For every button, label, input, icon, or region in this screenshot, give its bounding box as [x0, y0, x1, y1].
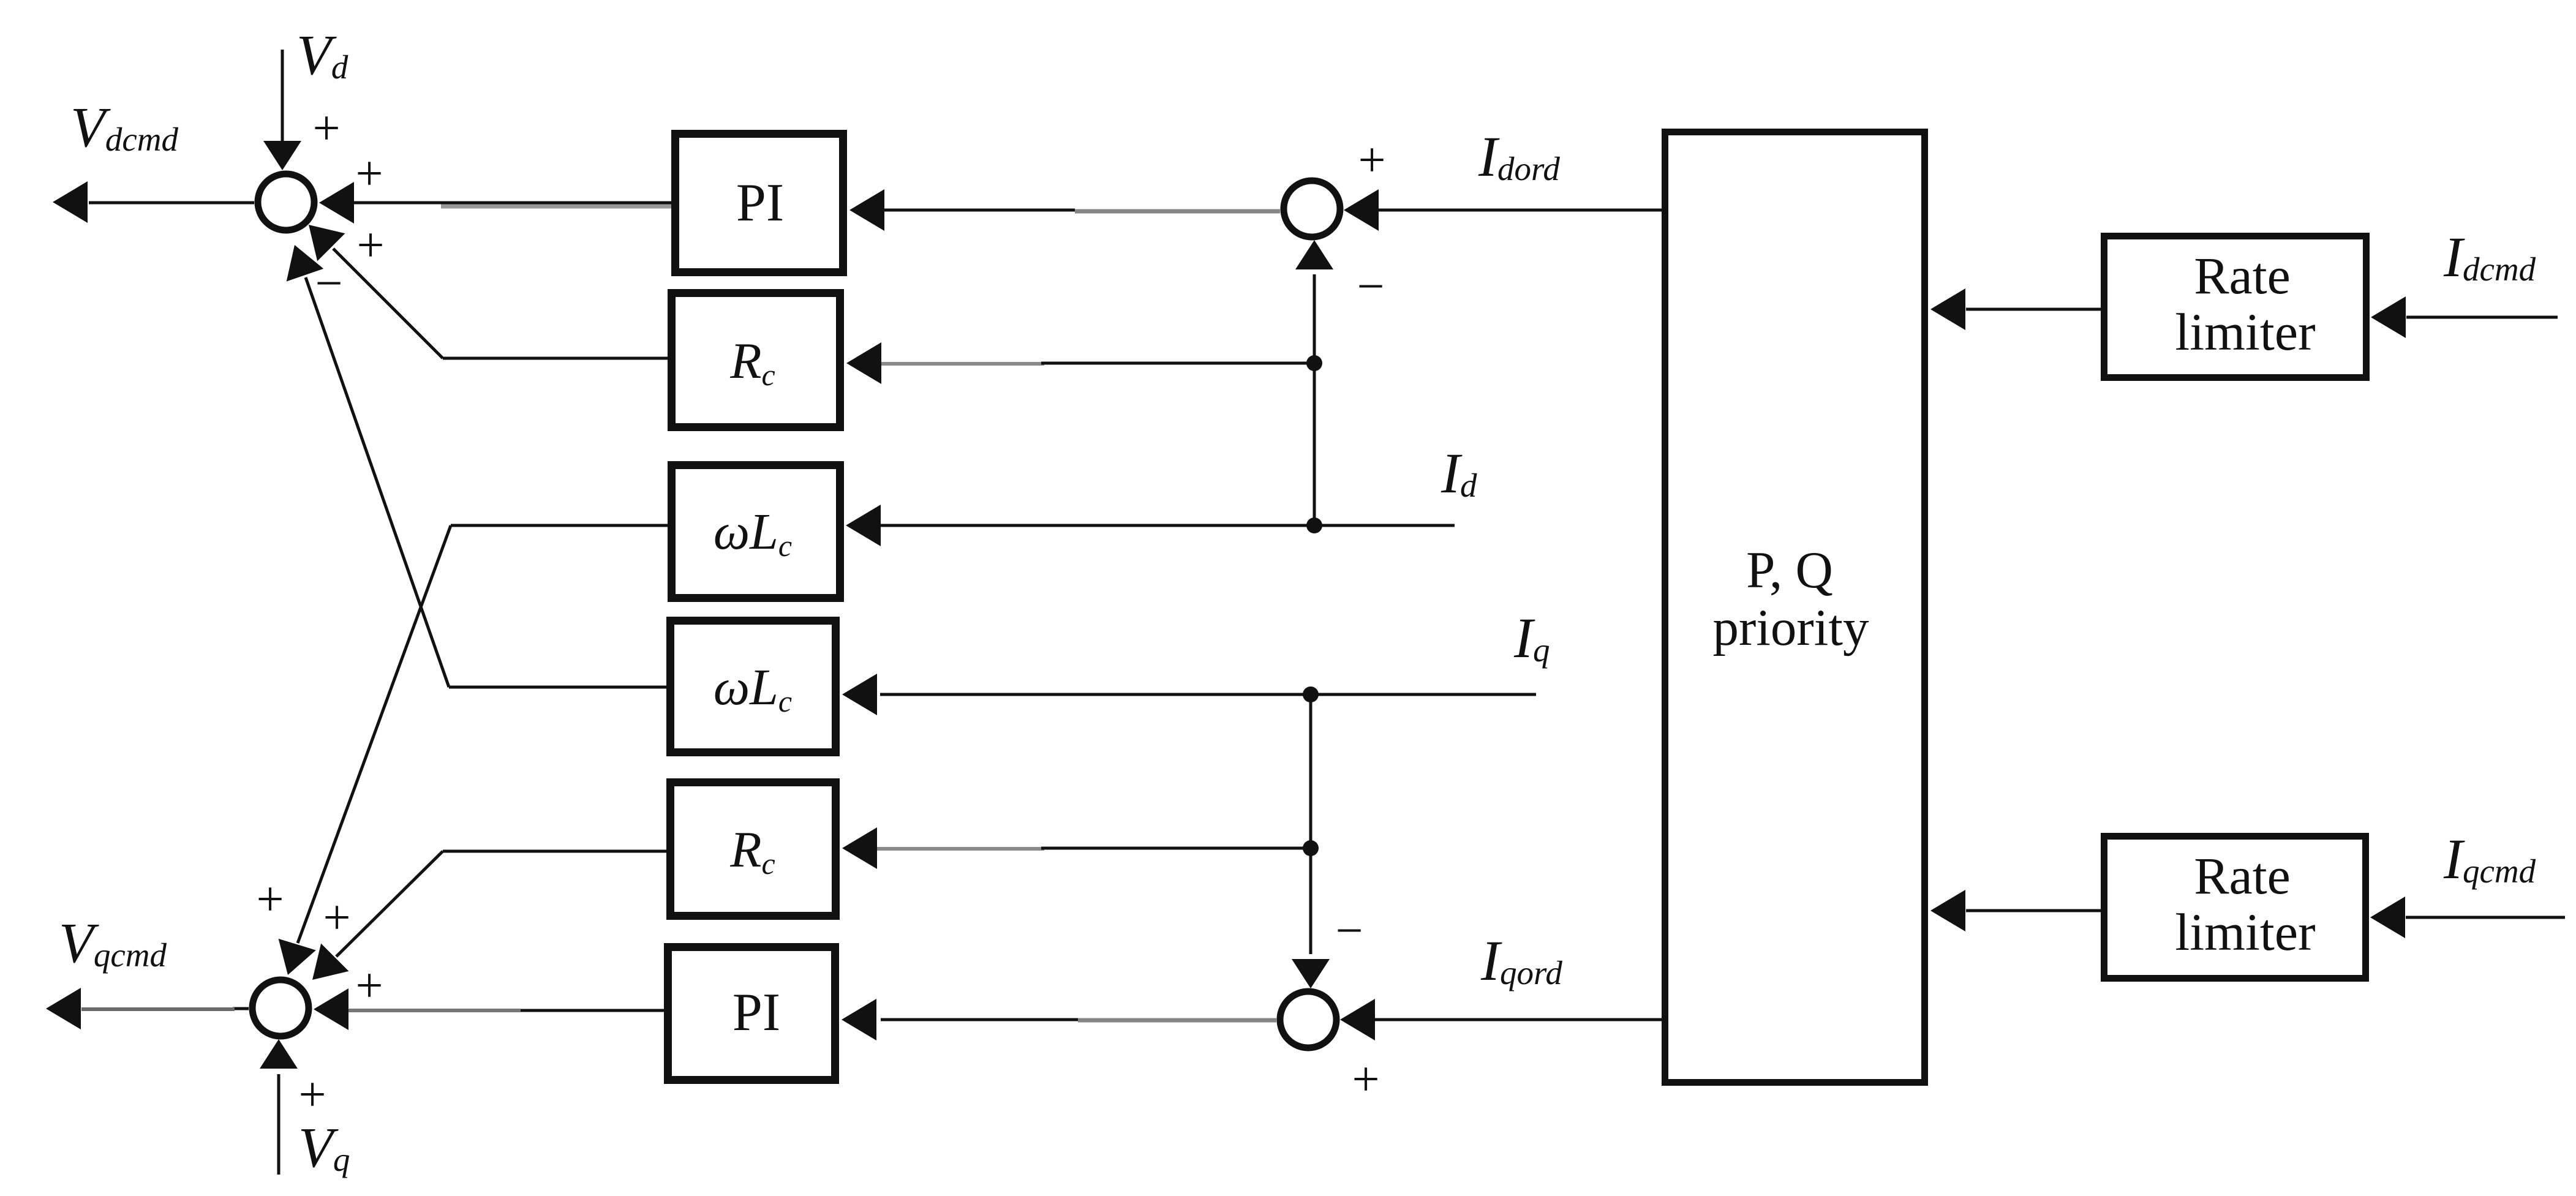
svg-text:PI: PI — [736, 173, 784, 233]
svg-text:+: + — [1358, 134, 1385, 187]
svg-text:PI: PI — [733, 983, 780, 1042]
svg-text:priority: priority — [1713, 599, 1869, 656]
svg-text:+: + — [298, 1068, 326, 1122]
svg-text:+: + — [312, 102, 340, 156]
svg-text:P, Q: P, Q — [1746, 541, 1833, 599]
svg-text:−: − — [1357, 260, 1384, 314]
svg-text:Rate: Rate — [2194, 846, 2291, 905]
svg-text:+: + — [355, 147, 383, 201]
svg-text:+: + — [323, 891, 350, 945]
svg-text:−: − — [1335, 904, 1363, 958]
svg-text:+: + — [1352, 1053, 1379, 1107]
svg-text:Rate: Rate — [2194, 246, 2291, 305]
svg-text:limiter: limiter — [2175, 303, 2315, 361]
svg-text:+: + — [356, 219, 384, 273]
svg-text:−: − — [315, 257, 342, 310]
svg-text:limiter: limiter — [2175, 903, 2315, 961]
svg-text:+: + — [256, 873, 284, 927]
svg-text:+: + — [355, 959, 383, 1013]
